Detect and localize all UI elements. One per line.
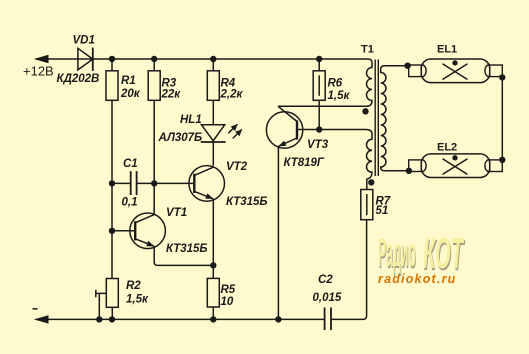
svg-text:22к: 22к <box>161 89 182 101</box>
svg-text:0,015: 0,015 <box>313 292 342 304</box>
svg-text:VT2: VT2 <box>226 161 248 173</box>
svg-text:EL1: EL1 <box>437 44 457 56</box>
svg-text:1,5к: 1,5к <box>328 90 351 102</box>
svg-text:АЛ307Б: АЛ307Б <box>158 132 203 144</box>
svg-text:КД202В: КД202В <box>57 73 100 85</box>
svg-text:R4: R4 <box>221 77 236 89</box>
svg-text:radiokot.ru: radiokot.ru <box>378 272 456 286</box>
svg-text:R6: R6 <box>328 77 343 89</box>
svg-text:Радио: Радио <box>378 231 416 275</box>
svg-text:+12В: +12В <box>23 64 54 79</box>
svg-text:20к: 20к <box>120 88 141 100</box>
svg-text:R1: R1 <box>121 75 136 87</box>
svg-text:R2: R2 <box>126 280 141 292</box>
svg-text:R5: R5 <box>221 284 236 296</box>
svg-text:КТ315Б: КТ315Б <box>166 243 208 255</box>
svg-text:T1: T1 <box>361 44 374 56</box>
svg-text:R3: R3 <box>162 77 177 89</box>
svg-text:VD1: VD1 <box>73 35 95 47</box>
svg-text:EL2: EL2 <box>437 142 457 154</box>
svg-text:0,1: 0,1 <box>122 197 138 209</box>
svg-text:КОТ: КОТ <box>423 229 464 278</box>
svg-text:VT1: VT1 <box>166 207 187 219</box>
svg-text:C1: C1 <box>123 158 138 170</box>
svg-text:VT3: VT3 <box>307 139 329 151</box>
svg-text:C2: C2 <box>318 274 333 286</box>
svg-text:51: 51 <box>376 205 389 217</box>
svg-text:КТ315Б: КТ315Б <box>226 196 268 208</box>
svg-text:HL1: HL1 <box>180 114 202 126</box>
svg-text:2,2к: 2,2к <box>220 89 244 101</box>
svg-text:КТ819Г: КТ819Г <box>284 157 325 169</box>
svg-text:1,5к: 1,5к <box>126 294 149 306</box>
svg-text:10: 10 <box>221 296 234 308</box>
